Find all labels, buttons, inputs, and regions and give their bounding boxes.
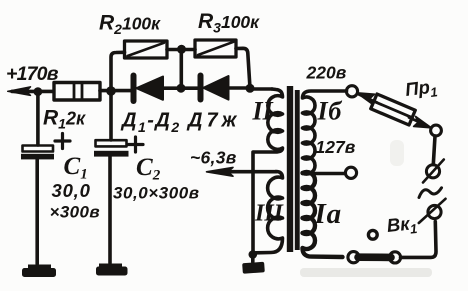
capacitor C1: [21, 92, 54, 264]
wire: R2 to R3: [167, 48, 195, 52]
node: junction between R2 and R3: [177, 45, 186, 54]
fuse Pr1 body: [371, 94, 416, 125]
svg-text:×300в: ×300в: [50, 203, 101, 222]
svg-text:Iа: Iа: [314, 198, 342, 230]
label winding Ib: [317, 97, 343, 126]
svg-text:Iб: Iб: [317, 97, 343, 126]
node: junction of R3 right end and winding II: [246, 84, 255, 93]
svg-text:C1: C1: [64, 153, 88, 183]
capacitor C2: [94, 91, 129, 263]
svg-text:Д1-Д2: Д1-Д2: [120, 110, 181, 136]
switch Vk1 terminal left: [348, 252, 359, 263]
label 6.3v: [190, 148, 237, 168]
terminal: 220v: [346, 86, 357, 97]
wire: 6.3v output line: [228, 170, 276, 174]
resistor R2: [125, 41, 168, 58]
svg-text:127в: 127в: [316, 137, 356, 157]
node: junction winding III bottom with ground line: [249, 250, 258, 259]
ground: below C2: [96, 264, 128, 276]
label C1 value x300v: [50, 203, 101, 222]
wire: fuse terminal down to plug pin 1: [433, 136, 435, 165]
winding II (primary HV side): [254, 89, 283, 152]
node: junction between D1 and D2 (R2/R3 midpoint branch): [177, 84, 186, 93]
svg-text:C2: C2: [136, 154, 161, 184]
label D1-D2 D7Zh: [120, 110, 240, 136]
winding Ia (127v primary lower): [303, 172, 343, 257]
label fuse Pr1: [404, 75, 439, 103]
plug AC squiggle: [419, 188, 442, 198]
svg-text:30,0×300в: 30,0×300в: [113, 184, 200, 203]
polarity plus of C1: [55, 134, 70, 149]
label switch Vk1: [386, 212, 418, 239]
svg-text:30,0: 30,0: [52, 180, 91, 201]
polarity plus of C2: [128, 137, 143, 152]
arrow: +170v output arrowhead: [8, 87, 31, 96]
fuse Pr1 holder arrow lower: [409, 116, 431, 127]
label C2: [136, 154, 161, 184]
label C2 value: [113, 184, 200, 203]
wire: D2 to transformer winding II top: [229, 88, 273, 89]
terminal: fuse lower: [431, 125, 442, 136]
transformer core: [287, 86, 300, 252]
arrow: 6.3v output arrowhead: [207, 167, 234, 176]
switch Vk1 terminal right: [389, 252, 400, 263]
label +170v: [6, 63, 59, 85]
wire: R2 left branch (down to main wire): [111, 52, 125, 89]
wire: +170v output lead: [12, 90, 53, 94]
wire: 127v tap: [303, 172, 346, 176]
ground: transformer chassis: [242, 255, 265, 274]
svg-text:R2100к: R2100к: [99, 12, 161, 38]
svg-text:R12к: R12к: [43, 107, 86, 132]
node: junction main wire / R2 / C2: [106, 86, 116, 96]
resistor R1: [54, 83, 100, 101]
label winding Ia: [314, 198, 342, 230]
svg-text:Д7ж: Д7ж: [186, 110, 240, 132]
wire: R2/R3 midpoint down to main wire: [180, 49, 184, 88]
svg-text:III: III: [254, 201, 285, 227]
label C1 value 30,0: [52, 180, 91, 201]
svg-text:R3100к: R3100к: [198, 10, 260, 36]
label C1: [64, 153, 88, 183]
plug pin symbol lower: [419, 199, 446, 223]
wire: switch to plug lead: [401, 222, 437, 258]
fuse Pr1 holder arrow upper: [357, 93, 377, 104]
label R2 100k: [99, 12, 161, 38]
plug pin symbol upper: [423, 160, 444, 183]
scan smudge mid right: [390, 140, 404, 166]
label winding II: [252, 97, 274, 126]
diode D1: [134, 76, 164, 102]
switch Vk1 pivot contact: [368, 230, 377, 239]
resistor R3: [195, 40, 236, 57]
label winding III: [254, 201, 285, 227]
wire: R3 right branch down to main wire: [236, 48, 250, 88]
svg-text:Пр1: Пр1: [404, 75, 439, 103]
node: junction of R1, C1 and output: [34, 87, 43, 96]
wire: R1 to diode node: [100, 89, 131, 93]
scan smudge bottom right: [300, 268, 432, 277]
wire: winding II bottom down to chassis ground: [251, 152, 255, 255]
svg-text:Вк1: Вк1: [386, 212, 418, 239]
diode D2: [201, 76, 229, 100]
svg-text:220в: 220в: [306, 63, 347, 83]
switch Vk1 blade: [358, 253, 391, 261]
winding Ib (220v primary upper): [303, 91, 347, 174]
svg-text:~6,3в: ~6,3в: [190, 148, 237, 168]
svg-text:II: II: [252, 97, 274, 126]
winding III (6.3v heater): [256, 172, 283, 253]
label 127v: [316, 137, 356, 157]
wire: D1 to D2: [163, 86, 198, 90]
label R1 2k: [43, 107, 86, 132]
ground: below C1: [22, 265, 56, 278]
svg-text:+170в: +170в: [6, 63, 59, 85]
label 220v: [306, 63, 347, 83]
terminal: 127v: [345, 167, 356, 178]
label R3 100k: [198, 10, 260, 36]
